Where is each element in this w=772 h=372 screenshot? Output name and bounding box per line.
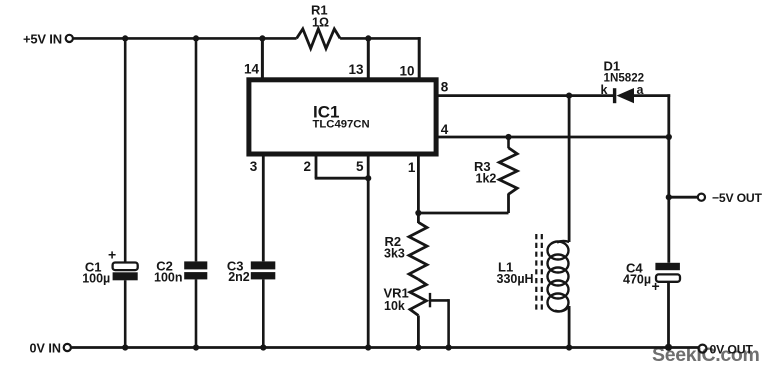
- junction top rail at C1: [122, 35, 128, 41]
- wire C4 bottom lead: [667, 282, 670, 348]
- junction link at pin5: [365, 175, 371, 181]
- svg-text:10: 10: [400, 64, 415, 79]
- capacitor C2 bottom plate: [184, 272, 207, 279]
- L1 core dashed line left: [535, 234, 537, 311]
- svg-text:14: 14: [244, 62, 260, 77]
- diode D1 triangle: [617, 88, 635, 103]
- svg-text:1: 1: [408, 160, 416, 175]
- wire pin 3 to C3: [262, 154, 265, 261]
- potentiometer VR1: [410, 279, 426, 315]
- wire C2 top lead: [195, 38, 198, 261]
- junction 0V rail at C2: [193, 344, 199, 350]
- svg-text:k: k: [601, 83, 608, 97]
- svg-text:3k3: 3k3: [384, 247, 405, 261]
- junction 0V rail at C4: [665, 344, 672, 351]
- wire pin 5 down to 0V rail: [367, 154, 370, 348]
- svg-text:100n: 100n: [154, 271, 183, 285]
- terminal +5V IN: [66, 35, 73, 42]
- junction top rail at pin 13: [365, 35, 371, 41]
- junction pin1 at R3 return: [415, 210, 421, 216]
- junction 0V rail at C3: [260, 344, 266, 350]
- svg-text:470µ: 470µ: [623, 272, 651, 286]
- wire L1 bottom lead: [568, 306, 571, 348]
- terminal 0V IN: [64, 344, 71, 351]
- svg-text:2: 2: [304, 159, 312, 174]
- svg-text:1k2: 1k2: [476, 172, 497, 186]
- wire pin 8 to diode: [439, 94, 615, 97]
- wire pin13 stub: [367, 38, 370, 78]
- svg-text:1Ω: 1Ω: [312, 16, 329, 30]
- svg-text:2n2: 2n2: [228, 270, 250, 284]
- wire L1 top lead: [568, 96, 571, 242]
- wire diode anode to right corner: [633, 94, 671, 97]
- junction pin8 wire at L1: [566, 93, 572, 99]
- svg-text:100µ: 100µ: [82, 272, 110, 286]
- svg-text:0V IN: 0V IN: [30, 341, 62, 355]
- svg-text:a: a: [637, 83, 645, 97]
- wire C3 bottom lead: [262, 279, 265, 347]
- wire R3 top lead: [507, 137, 510, 148]
- junction top rail at C2: [193, 35, 199, 41]
- wire R3 bottom lead: [507, 194, 510, 214]
- junction pin4 wire at R3: [505, 134, 511, 140]
- terminal 0V OUT: [699, 345, 707, 353]
- wire +5V rail right: [340, 37, 421, 40]
- capacitor C4 top plate (filled): [655, 263, 680, 270]
- junction -5V tap: [666, 194, 672, 200]
- svg-text:0V OUT: 0V OUT: [710, 342, 754, 356]
- wire +5V rail left: [73, 37, 297, 40]
- wire pin 2 stub: [315, 154, 318, 178]
- svg-text:+: +: [108, 246, 116, 262]
- junction 0V rail at wiper: [446, 344, 452, 350]
- wire -5V OUT tap: [669, 196, 698, 199]
- resistor R2: [409, 222, 427, 279]
- junction 0V rail at L1: [566, 344, 572, 350]
- wire pin 1 down: [417, 154, 420, 223]
- svg-text:−5V OUT: −5V OUT: [712, 191, 762, 205]
- svg-text:+5V IN: +5V IN: [23, 31, 62, 46]
- wire link pin2 to pin5: [315, 177, 369, 180]
- junction top rail at pin 14: [259, 35, 265, 41]
- capacitor C2 top plate: [184, 261, 207, 269]
- junction pin4 wire at right vertical: [666, 134, 672, 140]
- diode D1 cathode bar: [613, 88, 616, 103]
- terminal -5V OUT: [698, 194, 705, 201]
- wire C1 top lead: [124, 38, 127, 262]
- capacitor C3 top plate: [251, 261, 275, 269]
- inductor L1 coil: [548, 242, 569, 260]
- svg-text:13: 13: [349, 62, 365, 77]
- resistor R1: [297, 29, 341, 49]
- wire pin10 stub: [418, 37, 421, 78]
- svg-text:330µH: 330µH: [497, 272, 534, 286]
- svg-text:8: 8: [441, 80, 449, 95]
- wire C1 bottom lead: [124, 280, 127, 347]
- svg-text:+: +: [652, 278, 660, 294]
- wire R3 bottom to pin 1 node: [417, 212, 508, 215]
- wire VR1 wiper horizontal: [430, 299, 449, 302]
- svg-text:10k: 10k: [384, 299, 405, 313]
- wire VR1 wiper down to 0V rail: [447, 299, 450, 347]
- capacitor C4 bottom plate (hollow): [656, 274, 680, 281]
- capacitor C3 bottom plate: [251, 272, 275, 279]
- capacitor C1 top plate (hollow): [113, 263, 138, 271]
- svg-text:5: 5: [356, 159, 364, 174]
- junction 0V rail at pin5: [365, 344, 371, 350]
- wire 0V rail: [71, 346, 698, 349]
- svg-text:3: 3: [250, 159, 258, 174]
- L1 core dashed line right: [541, 234, 543, 311]
- junction 0V rail at VR1: [415, 344, 421, 350]
- svg-text:TLC497CN: TLC497CN: [313, 119, 370, 131]
- op-amp U1: IC1 body: [249, 80, 436, 154]
- wire pin14 stub: [261, 38, 264, 78]
- capacitor C1 bottom plate (filled): [113, 272, 138, 280]
- wire right vertical (diode to C4): [667, 94, 670, 262]
- wire C2 bottom lead: [195, 279, 198, 347]
- wire VR1 bottom to 0V rail: [417, 316, 420, 348]
- resistor R3: [499, 148, 517, 194]
- junction 0V rail at C1: [122, 344, 128, 350]
- wire pin 4 horizontal: [439, 136, 669, 139]
- VR1 wiper bar: [429, 293, 431, 307]
- svg-text:4: 4: [441, 122, 449, 137]
